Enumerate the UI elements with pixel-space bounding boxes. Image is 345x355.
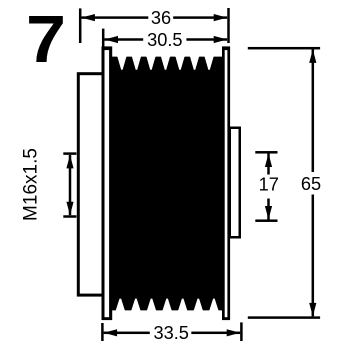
svg-text:33.5: 33.5: [153, 323, 188, 343]
svg-text:M16x1.5: M16x1.5: [20, 148, 41, 221]
svg-text:65: 65: [301, 174, 321, 194]
svg-text:36: 36: [151, 8, 171, 28]
svg-text:7: 7: [26, 2, 66, 77]
svg-text:17: 17: [259, 174, 279, 194]
svg-text:30.5: 30.5: [147, 30, 182, 50]
